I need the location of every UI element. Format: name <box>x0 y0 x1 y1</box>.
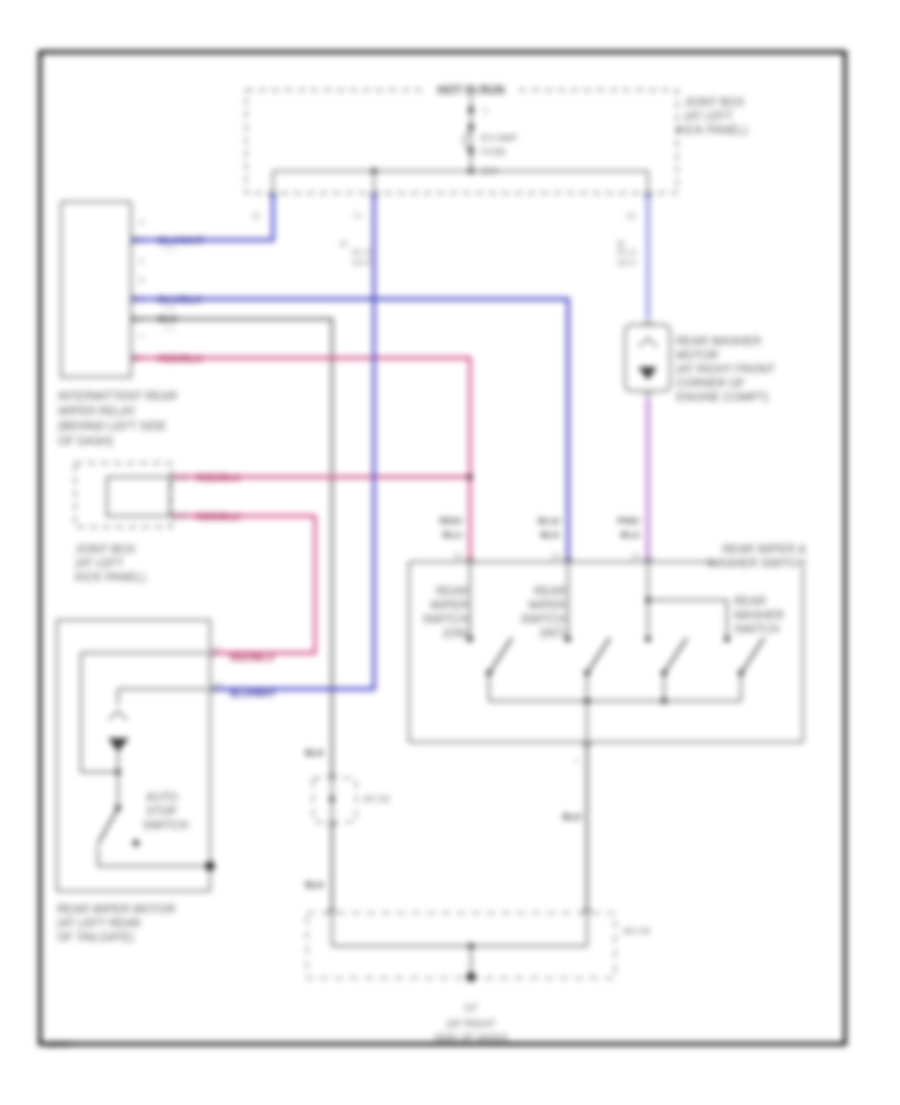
svg-text:BLK: BLK <box>305 748 325 759</box>
pin bump J/C-03 right <box>583 909 591 913</box>
svg-text:OF TAILGATE): OF TAILGATE) <box>57 932 134 944</box>
svg-text:MOTOR: MOTOR <box>676 350 719 362</box>
svg-text:SWITCH: SWITCH <box>734 624 779 636</box>
svg-text:KICK PANEL): KICK PANEL) <box>75 572 146 584</box>
svg-text:RED/BLU: RED/BLU <box>158 354 202 365</box>
ground G7 terminal dot <box>466 972 475 981</box>
svg-text:8.5 AMP: 8.5 AMP <box>481 133 517 144</box>
joint box J/B left (dashed enclosure) <box>75 463 171 527</box>
wire: BLK switch output down <box>586 742 588 913</box>
pin bump washer motor bottom <box>644 391 652 395</box>
pin bump washer motor top <box>644 320 652 324</box>
pin bump mid exit <box>370 193 378 197</box>
svg-text:BLU/WHT: BLU/WHT <box>158 236 204 247</box>
pin bump upper exit <box>171 473 175 481</box>
wire: bus left corner drop <box>272 171 274 193</box>
svg-text:WASHER: WASHER <box>734 610 784 622</box>
node: bus tap at 374 <box>371 168 377 174</box>
svg-text:(AT RIGHT FRONT: (AT RIGHT FRONT <box>676 364 775 376</box>
svg-text:REAR WASHER: REAR WASHER <box>676 336 761 348</box>
node: pivot 4 <box>738 670 744 676</box>
pin bump switch pin 7 <box>583 742 591 746</box>
relay: intermittent rear wiper relay <box>61 202 131 377</box>
svg-text:5E: 5E <box>178 473 188 482</box>
node: bus junction <box>468 168 474 174</box>
svg-text:WASHER SWITCH: WASHER SWITCH <box>707 558 806 570</box>
wire: pivot 1 drop <box>488 673 490 701</box>
wire: RED/BLU joint box to switch feed junction <box>173 476 470 479</box>
wire: RED/BLU joint box to rear wiper motor <box>173 516 315 653</box>
wire: motor internal feed path <box>81 653 208 772</box>
svg-text:BLK: BLK <box>540 530 560 541</box>
svg-text:7: 7 <box>575 758 580 767</box>
label HOT IN RUN <box>426 84 516 96</box>
svg-text:G7: G7 <box>464 1003 478 1014</box>
svg-text:(AT LEFT REAR: (AT LEFT REAR <box>57 918 141 930</box>
wire: contact A to case bus <box>97 846 99 866</box>
fuse F1 8.5A <box>464 133 471 148</box>
svg-text:OF DASH): OF DASH) <box>58 436 113 448</box>
node: auto stop contact B <box>133 840 139 846</box>
svg-text:5: 5 <box>138 354 143 363</box>
wire: PNK/BLU washer motor to switch <box>646 398 649 562</box>
svg-text:SWITCH: SWITCH <box>521 614 566 626</box>
svg-text:6: 6 <box>139 257 144 266</box>
svg-text:BLU/: BLU/ <box>617 247 638 257</box>
svg-text:AUTO: AUTO <box>146 792 178 804</box>
wire: bus mid drop <box>373 171 375 193</box>
svg-text:7A: 7A <box>352 212 362 221</box>
svg-text:L24: L24 <box>163 326 175 333</box>
svg-text:105694: 105694 <box>48 1040 75 1049</box>
svg-text:REAR: REAR <box>734 596 766 608</box>
svg-text:KICK PANEL): KICK PANEL) <box>677 125 748 137</box>
svg-text:WIPER: WIPER <box>528 600 566 612</box>
node: below fuse <box>468 148 474 154</box>
wire: BLK relay ground feed <box>131 319 332 778</box>
wire: BLU/WHT relay pin to joint box <box>131 193 273 240</box>
svg-text:PNK/: PNK/ <box>617 516 640 527</box>
wire: switch input INT <box>567 562 569 639</box>
wire: BLU/WHT main feed to rear wiper motor <box>212 193 374 689</box>
node: washer branch tap <box>645 597 651 603</box>
svg-text:BLK: BLK <box>305 880 325 891</box>
svg-text:BLU/WHT: BLU/WHT <box>230 689 276 700</box>
wire: distribution bus <box>273 170 648 172</box>
svg-text:L25: L25 <box>163 247 175 254</box>
svg-text:16: 16 <box>339 239 347 248</box>
connector J/C-02 (dashed) <box>313 778 356 822</box>
node: contact washer A <box>645 636 651 642</box>
svg-text:13: 13 <box>551 552 560 561</box>
svg-text:SWITCH: SWITCH <box>143 820 188 832</box>
node: J/C-02 splice <box>329 796 335 802</box>
wire: BLK to bottom joint connector left <box>331 822 333 913</box>
node: auto stop switch pivot <box>115 805 121 811</box>
pin bump switch pin 13 <box>564 558 572 562</box>
svg-text:BLU/: BLU/ <box>352 247 373 257</box>
svg-text:SIDE OF DASH): SIDE OF DASH) <box>434 1033 508 1044</box>
svg-text:4D: 4D <box>626 212 636 221</box>
svg-text:1: 1 <box>216 644 221 653</box>
wire: through J/C-02 <box>331 778 333 822</box>
node: contact ON <box>467 636 473 642</box>
connector J/C-03 (dashed enclosure) <box>307 913 615 978</box>
svg-text:SWITCH: SWITCH <box>423 614 468 626</box>
svg-text:BLK: BLK <box>562 812 582 823</box>
wire: BLU/WHT feed to rear washer motor <box>647 193 650 319</box>
switch arm 1 <box>489 638 512 673</box>
svg-text:REAR: REAR <box>534 586 566 598</box>
svg-text:8: 8 <box>139 276 144 285</box>
svg-text:BLU: BLU <box>620 530 640 541</box>
bus bar inside joint box <box>107 477 170 516</box>
wire: right entry inside J/C-03 <box>586 913 588 946</box>
svg-text:2: 2 <box>138 236 143 245</box>
svg-text:CORNER OF: CORNER OF <box>676 378 745 390</box>
switch arm: auto stop switch <box>98 808 118 844</box>
motor M2: rear washer motor <box>625 325 670 391</box>
svg-text:REAR WIPER &: REAR WIPER & <box>722 544 806 556</box>
svg-text:JOINT BOX: JOINT BOX <box>75 544 136 556</box>
switch S1: rear wiper and washer switch enclosure <box>409 562 803 742</box>
node: contact INT <box>565 636 571 642</box>
wire: junction to switch pivot <box>117 772 119 808</box>
wire: washer branch <box>648 600 727 639</box>
svg-text:J/C-03: J/C-03 <box>622 926 650 937</box>
label REAR WIPER & WASHER SWITCH <box>714 556 808 568</box>
wire: pivot 4 drop <box>740 673 742 701</box>
svg-text:BLU: BLU <box>442 530 462 541</box>
svg-text:BLU/BLK: BLU/BLK <box>158 295 203 306</box>
svg-text:(BEHIND LEFT SIDE: (BEHIND LEFT SIDE <box>58 421 167 433</box>
pin bump relay pin 4 <box>131 315 135 323</box>
node: bus junction 3 <box>661 698 667 704</box>
wire: common bus <box>489 700 741 702</box>
svg-text:RED/: RED/ <box>439 516 462 527</box>
wire: switch input washer <box>647 562 649 639</box>
svg-text:16: 16 <box>453 552 462 561</box>
svg-text:L26: L26 <box>163 306 175 313</box>
switch arm 3 <box>664 638 687 673</box>
svg-text:BLU/: BLU/ <box>538 516 561 527</box>
wire: feed drop inside joint box <box>470 95 472 171</box>
switch arm 2 <box>587 638 610 673</box>
pin bump left exit <box>269 193 277 197</box>
svg-text:RED/BLU: RED/BLU <box>196 512 240 523</box>
pin bump relay pin 5 <box>131 354 135 362</box>
wire: BLU/BLK relay to rear wiper switch INT <box>131 299 568 562</box>
svg-text:REAR WIPER MOTOR: REAR WIPER MOTOR <box>57 904 176 916</box>
pin bump lower exit <box>171 512 175 520</box>
wire: output drop to pin 7 <box>586 701 588 742</box>
wire: drop to ground <box>470 946 472 977</box>
svg-text:14: 14 <box>631 552 640 561</box>
node: case ground dot <box>205 861 215 871</box>
motor armature symbol <box>108 738 129 752</box>
svg-text:WHT: WHT <box>617 258 638 268</box>
svg-text:1: 1 <box>138 295 143 304</box>
svg-text:7: 7 <box>139 333 144 342</box>
node: red feed junction <box>467 474 473 480</box>
motor armature symbol <box>638 367 657 380</box>
svg-text:(AT LEFT: (AT LEFT <box>684 111 733 123</box>
svg-text:STOP: STOP <box>146 806 177 818</box>
pin bump J/C-02 bottom <box>328 822 336 826</box>
svg-text:BLK: BLK <box>158 314 178 325</box>
svg-text:WIPER RELAY: WIPER RELAY <box>58 406 136 418</box>
pin bump wiper motor lower <box>210 685 214 693</box>
node: ground tie junction <box>468 943 474 949</box>
motor brush chevron <box>639 338 657 347</box>
wire: bus right corner drop <box>647 171 649 193</box>
node: auto stop junction <box>115 769 121 775</box>
svg-text:J/C-02: J/C-02 <box>362 794 390 805</box>
wire: motor internal from lower pin <box>118 689 208 705</box>
pin bump switch pin 16 <box>466 558 474 562</box>
svg-text:INTERMITTENT REAR: INTERMITTENT REAR <box>58 391 177 403</box>
svg-text:(AT LEFT: (AT LEFT <box>75 558 124 570</box>
svg-text:3: 3 <box>139 218 144 227</box>
motor M1: rear wiper motor enclosure <box>57 620 210 891</box>
wire: RED/BLU relay to rear wiper switch ON <box>131 358 470 562</box>
svg-text:(INT): (INT) <box>540 628 566 640</box>
svg-text:RED/BLU: RED/BLU <box>230 653 274 664</box>
svg-text:1: 1 <box>483 106 488 115</box>
node: feed tap 1 <box>468 107 474 113</box>
svg-text:ENGINE COMPT): ENGINE COMPT) <box>676 392 769 404</box>
node: contact washer B <box>724 636 730 642</box>
wire: pivot 3 drop <box>663 673 665 701</box>
node: pivot 2 <box>584 670 590 676</box>
node: pivot 3 <box>661 670 667 676</box>
node: feed tap 2 <box>468 124 474 130</box>
joint box J/B top (dashed enclosure) <box>246 90 677 193</box>
pin bump right exit <box>644 193 652 197</box>
svg-text:REAR: REAR <box>436 586 468 598</box>
svg-text:(ON): (ON) <box>443 628 468 640</box>
wire: pivot 2 drop <box>586 673 588 701</box>
svg-text:FUSE: FUSE <box>481 147 506 158</box>
motor brush chevron <box>109 711 127 720</box>
pin bump J/C-02 top <box>328 774 336 778</box>
wire: switch input ON <box>469 562 471 639</box>
svg-text:WIPER: WIPER <box>430 600 468 612</box>
svg-text:6F: 6F <box>252 212 261 221</box>
pin bump relay pin 1 <box>131 295 135 303</box>
pin bump switch pin 14 <box>644 558 652 562</box>
svg-text:RED/BLU: RED/BLU <box>196 473 240 484</box>
node: pivot 1 <box>486 670 492 676</box>
svg-text:(AT RIGHT: (AT RIGHT <box>446 1019 495 1030</box>
svg-text:5F: 5F <box>178 512 187 521</box>
svg-text:4: 4 <box>216 680 221 689</box>
svg-text:WHT: WHT <box>352 258 373 268</box>
wire: armature to junction <box>117 752 119 772</box>
svg-text:JOINT BOX: JOINT BOX <box>684 97 745 109</box>
wire: ground tie bus <box>332 945 587 947</box>
node: bus junction at output <box>584 698 590 704</box>
pin bump J/C-03 left <box>328 909 336 913</box>
svg-text:4: 4 <box>138 315 143 324</box>
wire: left entry inside J/C-03 <box>331 913 333 946</box>
pin bump wiper motor upper <box>210 649 214 657</box>
switch arm 4 <box>741 638 764 673</box>
wire: motor case bus <box>97 865 210 867</box>
pin bump relay pin 2 <box>131 236 135 244</box>
